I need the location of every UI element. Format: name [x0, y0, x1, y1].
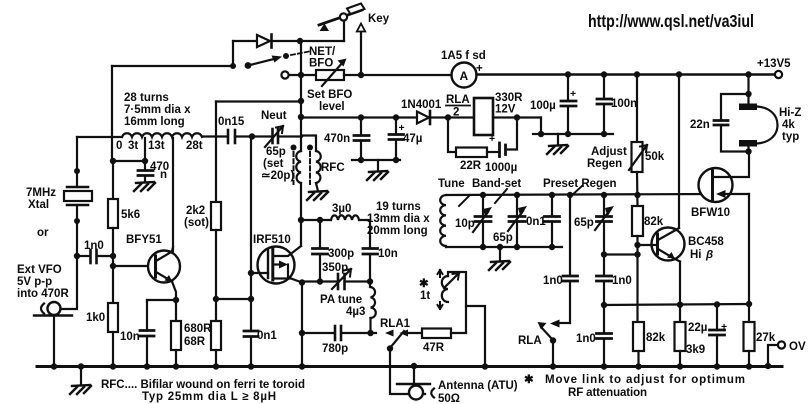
wire to RLA1 contact	[371, 332, 377, 334]
node 47u rail	[393, 114, 399, 120]
terminal 0V	[768, 341, 806, 366]
node supply rail tap	[298, 114, 304, 120]
svg-text:or: or	[37, 227, 49, 239]
ground filter bus	[557, 134, 559, 145]
wire key riser	[343, 21, 345, 41]
key J1	[319, 4, 365, 32]
svg-text:5V p-p: 5V p-p	[17, 276, 52, 288]
wire 13t tap collector	[172, 138, 174, 251]
svg-text:3t: 3t	[128, 140, 138, 152]
wire 28t to 0n15	[202, 135, 227, 137]
wire xtal bottom	[76, 205, 78, 256]
node 10p top	[480, 192, 486, 198]
capacitor 10n emitter	[120, 300, 154, 366]
inductor RFC winding inline	[296, 151, 301, 183]
svg-text:0n15: 0n15	[218, 116, 245, 128]
wire rfc to drain	[300, 183, 302, 246]
svg-text:330R: 330R	[495, 92, 523, 104]
node gate bias join	[248, 296, 254, 302]
terminal BFO input	[281, 71, 316, 78]
svg-text:+: +	[721, 321, 727, 333]
connector Antenna ATU 50ohm	[397, 366, 434, 400]
svg-text:22µ: 22µ	[688, 322, 707, 334]
node gate bias	[213, 296, 219, 302]
node rail 22u	[714, 363, 720, 369]
svg-text:Set BFO: Set BFO	[307, 89, 352, 101]
wire tank top right	[359, 220, 370, 248]
resistor 27k	[744, 304, 776, 366]
svg-text:Adjust: Adjust	[591, 146, 627, 158]
capacitor 22u	[688, 305, 727, 367]
tick preset regen	[570, 186, 582, 197]
label coil taps 0 3t 13t 28t	[116, 140, 203, 152]
svg-text:NET/: NET/	[309, 46, 336, 58]
node base top	[634, 242, 640, 248]
transistor Q4 BFW10	[699, 152, 750, 202]
label 19 turns 13mm dia x 20mm long	[367, 201, 430, 237]
svg-text:16mm long: 16mm long	[124, 116, 185, 128]
terminal +13V5	[757, 58, 791, 78]
capacitor 65p Band-set	[493, 195, 527, 247]
node 0n1 top	[549, 192, 555, 198]
svg-text:65p: 65p	[574, 217, 594, 229]
svg-text:(set: (set	[263, 158, 284, 170]
node 10p bottom	[480, 244, 486, 250]
inductor 3u0	[331, 203, 359, 220]
node rail 82k	[635, 363, 641, 369]
node 100u rail	[565, 71, 571, 77]
svg-text:(sot): (sot)	[184, 217, 209, 229]
node switch common	[230, 63, 236, 69]
node alt input	[74, 218, 80, 224]
label rfc note	[101, 379, 305, 403]
svg-text:1A5 f sd: 1A5 f sd	[441, 50, 486, 62]
wire diode riser	[232, 41, 234, 66]
svg-text:IRF510: IRF510	[253, 234, 291, 246]
label 7MHz Xtal	[26, 187, 56, 211]
node 65p top	[514, 192, 520, 198]
svg-text:3µ0: 3µ0	[332, 203, 351, 215]
wire +13V5 rail	[477, 73, 775, 76]
node emitter	[173, 297, 179, 303]
ground main rail	[80, 366, 82, 385]
svg-text:1000µ: 1000µ	[485, 162, 517, 174]
rfc phasing dot B	[307, 145, 313, 151]
wire 5k6 top	[112, 161, 114, 199]
node rail 3k9	[677, 363, 683, 369]
wire 5k6 bottom	[112, 228, 114, 303]
svg-text:0: 0	[116, 140, 122, 152]
wire 68R bottom	[215, 350, 217, 366]
wire 3t tap	[144, 138, 146, 170]
label 28 turns 7.5mm dia x 16mm long	[124, 92, 191, 128]
wire emitter riser	[679, 262, 681, 306]
capacitor Neut 65p (set ~20p)	[261, 110, 294, 182]
capacitor 470n osc	[138, 161, 169, 182]
link 1t coil	[438, 270, 460, 309]
svg-text:65p: 65p	[266, 146, 286, 158]
wire collector riser	[678, 75, 680, 229]
wire regen bus	[446, 194, 712, 195]
wire ground rail 0V	[37, 365, 782, 368]
svg-text:82k: 82k	[646, 332, 666, 344]
svg-text:13t: 13t	[148, 140, 165, 152]
svg-text:Hi-Z: Hi-Z	[779, 107, 801, 119]
capacitor 10p Tune	[455, 195, 492, 247]
svg-text:50Ω: 50Ω	[438, 393, 460, 404]
wire to neut cap	[252, 135, 271, 137]
node rail 27k	[746, 363, 752, 369]
contact arrow RLA1 right	[400, 330, 409, 337]
capacitor 1n0 base	[597, 255, 632, 306]
svg-text:≃20p): ≃20p)	[261, 170, 294, 182]
capacitor 1000u	[485, 118, 517, 175]
svg-text:http://www.qsl.net/va3iul: http://www.qsl.net/va3iul	[588, 11, 754, 31]
node rail 1n0	[601, 363, 607, 369]
wire tap to 470n	[113, 160, 145, 162]
wire diode cathode	[272, 40, 300, 42]
svg-text:+13V5: +13V5	[757, 58, 791, 70]
switch S1 NET/BFO arm	[245, 52, 309, 69]
wire gate column	[250, 137, 252, 331]
svg-text:68R: 68R	[184, 336, 206, 348]
label NET/BFO	[309, 46, 336, 70]
node emitter join	[677, 302, 683, 308]
capacitor 22n phones	[690, 94, 749, 152]
capacitor 1n0 mute	[543, 275, 578, 323]
svg-text:BFO: BFO	[309, 58, 333, 70]
svg-text:β: β	[705, 249, 713, 261]
svg-text:Key: Key	[368, 13, 390, 25]
svg-text:Tune: Tune	[438, 178, 465, 190]
svg-text:680R: 680R	[184, 323, 212, 335]
svg-text:22n: 22n	[690, 119, 710, 131]
svg-text:1n0: 1n0	[612, 275, 632, 287]
wire coil left	[77, 136, 122, 138]
headphones Hi-Z 4k	[739, 104, 778, 153]
node rail 680R	[173, 363, 179, 369]
node rail source	[299, 363, 305, 369]
capacitor 0n1 gate	[244, 330, 277, 366]
svg-text:47R: 47R	[423, 342, 445, 354]
node 3t tap	[142, 158, 148, 164]
wire to key	[300, 40, 344, 42]
potentiometer Set BFO level	[316, 59, 347, 87]
node preset top	[601, 192, 607, 198]
svg-text:OV: OV	[789, 341, 806, 353]
wire mute arrow	[550, 320, 570, 328]
svg-text:27k: 27k	[756, 332, 776, 344]
node BC458 collector rail	[676, 71, 682, 77]
capacitor 47u	[389, 118, 422, 161]
wire keyed 12V feed	[301, 116, 417, 118]
svg-text:Ext VFO: Ext VFO	[17, 264, 62, 276]
wire diode anode	[233, 40, 257, 42]
svg-text:780p: 780p	[322, 343, 348, 355]
svg-text:20mm long: 20mm long	[367, 225, 428, 237]
svg-text:✱: ✱	[524, 374, 534, 386]
transistor Q3 BC458	[638, 228, 685, 262]
node 780p junction	[367, 330, 373, 336]
key arrow contact	[357, 24, 365, 76]
svg-text:1n0: 1n0	[576, 333, 596, 345]
label BC458 Hi beta	[688, 236, 724, 261]
capacitor 0n15	[218, 116, 245, 143]
svg-text:65p: 65p	[493, 232, 513, 244]
capacitor 10n coupling	[363, 248, 398, 282]
wire 2k2 column	[215, 102, 217, 203]
transistor Q2 IRF510	[251, 246, 302, 284]
inductor 4u3	[370, 282, 376, 334]
diode D2 1N4001	[401, 99, 448, 124]
svg-text:+: +	[570, 88, 576, 100]
capacitor 100u	[530, 75, 576, 135]
svg-text:10n: 10n	[378, 248, 398, 260]
resistor 47R	[408, 329, 466, 355]
svg-text:28t: 28t	[186, 140, 203, 152]
svg-text:50k: 50k	[645, 151, 665, 163]
svg-text:into 470R: into 470R	[17, 288, 69, 300]
node 82k rail	[634, 192, 640, 198]
node 100u gnd	[565, 131, 571, 137]
node phones rail	[745, 71, 751, 77]
capacitor 300p	[313, 220, 355, 282]
svg-text:Neut: Neut	[261, 110, 287, 122]
node 470n rail	[358, 114, 364, 120]
svg-text:1t: 1t	[420, 290, 430, 302]
node osc tap	[110, 158, 116, 164]
svg-text:12V: 12V	[495, 104, 516, 116]
label link note	[419, 278, 430, 302]
svg-text:1k0: 1k0	[86, 312, 105, 324]
node phones bottom	[745, 148, 751, 154]
node regen mute	[567, 192, 573, 198]
node 1n0 left	[74, 253, 80, 259]
transistor Q1 BFY51	[148, 247, 180, 300]
node relay feed	[445, 114, 451, 120]
capacitor 0n1 Band-set	[526, 195, 560, 247]
svg-text:BFY51: BFY51	[126, 234, 162, 246]
wire source ground column	[301, 283, 303, 367]
ground decoupling	[377, 160, 379, 171]
wire pot to key node	[344, 74, 361, 76]
wire xtal column	[76, 137, 78, 187]
capacitor 470n decoupling	[324, 118, 369, 161]
node 65p bottom	[514, 244, 520, 250]
resistor 1k0	[86, 303, 118, 332]
svg-text:22R: 22R	[460, 160, 482, 172]
node 0n1 bottom	[549, 244, 555, 250]
resistor 68R	[211, 321, 221, 350]
node tank gnd	[497, 244, 503, 250]
svg-text:RLA1: RLA1	[380, 318, 411, 330]
node 100n rail	[601, 71, 607, 77]
wire neut to rfc node	[278, 135, 302, 137]
label PA tune 4u3	[320, 294, 365, 318]
svg-text:10p: 10p	[455, 218, 475, 230]
node 0V rail	[765, 363, 771, 369]
svg-text:Move link to adjust for optimu: Move link to adjust for optimum	[545, 374, 745, 386]
capacitor 1n0 input	[77, 240, 113, 263]
svg-text:level: level	[319, 101, 345, 113]
wire base	[113, 265, 155, 267]
relay coil RLA	[448, 98, 541, 135]
svg-text:10n: 10n	[120, 331, 140, 343]
node drain tank	[298, 217, 304, 223]
svg-text:+: +	[489, 133, 495, 145]
svg-text:+: +	[476, 63, 483, 75]
capacitor 1n0 emitter	[576, 305, 612, 366]
node 300p bottom	[317, 278, 323, 284]
wire decoupling ground bus	[352, 159, 400, 161]
node 300p top	[317, 217, 323, 223]
label Antenna (ATU) 50ohm	[438, 380, 518, 404]
node source	[299, 279, 305, 285]
node keyed supply	[358, 72, 364, 78]
wire 1k0 bottom	[112, 332, 114, 366]
svg-text:✱: ✱	[419, 278, 429, 290]
rfc phasing dot A	[291, 145, 297, 151]
node 50k rail	[634, 71, 640, 77]
svg-text:100µ: 100µ	[530, 100, 556, 112]
resistor 82k upper	[632, 206, 664, 322]
wire to ammeter	[361, 74, 452, 76]
svg-text:7MHz: 7MHz	[26, 187, 56, 199]
ground RFC	[307, 191, 328, 200]
svg-text:1n0: 1n0	[543, 275, 563, 287]
node gate drop	[249, 133, 255, 139]
svg-text:Regen: Regen	[587, 158, 622, 170]
potentiometer 50k Adjust Regen	[629, 75, 665, 207]
svg-text:Xtal: Xtal	[28, 199, 49, 211]
diode D1	[257, 35, 272, 48]
label Hi-Z 4k typ	[779, 107, 801, 143]
node source join	[746, 301, 752, 307]
svg-text:3k9: 3k9	[686, 344, 705, 356]
node phones top	[745, 91, 751, 97]
node 1n0b top	[601, 251, 607, 257]
svg-text:19 turns: 19 turns	[376, 201, 421, 213]
node pot tap	[298, 72, 304, 78]
svg-text:RF attenuation: RF attenuation	[568, 387, 647, 399]
svg-text:300p: 300p	[328, 248, 354, 260]
label RLA/2	[446, 94, 470, 119]
node 47u gnd	[393, 157, 399, 163]
label Adjust Regen	[587, 146, 627, 170]
node antenna rail	[411, 363, 417, 369]
wire top-left vertical	[111, 66, 113, 161]
node 100n gnd	[601, 131, 607, 137]
svg-text:470n: 470n	[324, 133, 350, 145]
node xtal top	[74, 168, 80, 174]
node rail gnd stem	[78, 363, 84, 369]
tick tune	[459, 195, 470, 206]
node rail link	[482, 363, 488, 369]
node rail 10n	[144, 363, 150, 369]
node 2k2 feed	[298, 98, 304, 104]
resistor 680R	[171, 300, 181, 366]
wire source riser	[748, 194, 750, 304]
inductor RFC winding B	[302, 136, 321, 192]
label link move note	[524, 374, 745, 399]
switch RLA1 arm	[387, 331, 425, 394]
svg-text:Typ 25mm dia L ≥ 8µH: Typ 25mm dia L ≥ 8µH	[142, 391, 276, 403]
rfc dashed winding B	[309, 152, 311, 184]
wire relay to filter bus	[541, 118, 613, 135]
node 22u top	[714, 301, 720, 307]
wire main vertical node column	[300, 41, 302, 151]
resistor 2k2 (sot)	[184, 202, 221, 230]
wire 0n15 to neut	[235, 135, 252, 137]
wire emitter bus	[604, 304, 749, 305]
wire mute column	[569, 195, 571, 276]
wire link to ground drop	[448, 272, 485, 366]
svg-text:Hi: Hi	[690, 249, 702, 261]
svg-text:7·5mm dia x: 7·5mm dia x	[124, 104, 191, 116]
wire ext vfo riser	[61, 256, 77, 309]
wire preset to divider	[604, 253, 638, 255]
node 1000u return	[514, 114, 520, 120]
node key/diode junction	[297, 38, 303, 44]
node emitter bus	[601, 302, 607, 308]
node rail RLA	[550, 363, 556, 369]
node 470n gnd	[358, 157, 364, 163]
svg-text:100n: 100n	[611, 98, 637, 110]
svg-text:RFC.... Bifilar wound on ferri: RFC.... Bifilar wound on ferri te toroid	[101, 379, 305, 391]
capacitor 65p Preset Regen	[574, 195, 614, 255]
node preset join	[634, 251, 640, 257]
wire phones riser	[747, 75, 749, 105]
svg-text:5k6: 5k6	[121, 209, 140, 221]
svg-text:RLA: RLA	[446, 94, 470, 106]
wire emitter row	[147, 299, 176, 301]
tick bandset	[495, 189, 507, 203]
wire tank bottom right	[345, 280, 370, 282]
resistor 5k6	[108, 199, 140, 228]
resistor 22R	[448, 118, 498, 173]
wire bias to gate	[216, 298, 251, 300]
svg-text:4k: 4k	[782, 119, 795, 131]
resistor 3k9	[675, 305, 706, 366]
svg-text:82k: 82k	[644, 216, 664, 228]
svg-text:0n1: 0n1	[526, 216, 546, 228]
ammeter M1 1A5 fsd	[441, 50, 486, 88]
inductor L1 28 turns	[122, 133, 202, 137]
wire tank bottom left	[302, 280, 336, 282]
svg-text:n: n	[160, 169, 167, 181]
node bus corner	[538, 131, 544, 137]
node rail 1k0	[110, 363, 116, 369]
rfc dashed winding A	[293, 152, 295, 184]
svg-text:BC458: BC458	[688, 236, 724, 248]
svg-text:13mm dia x: 13mm dia x	[367, 213, 430, 225]
node rail ext vfo gnd	[51, 363, 57, 369]
svg-text:350p: 350p	[322, 262, 348, 274]
svg-text:1n0: 1n0	[84, 240, 104, 252]
node 780p ground side	[299, 330, 305, 336]
svg-text:1N4001: 1N4001	[401, 99, 442, 111]
svg-text:RLA: RLA	[518, 335, 542, 347]
switch RLA mute	[538, 322, 557, 366]
capacitor 780p	[302, 326, 371, 355]
svg-text:0n1: 0n1	[257, 330, 277, 342]
capacitor 100n	[597, 75, 637, 135]
wire top-left horizontal	[112, 65, 234, 67]
wire tank top left	[301, 219, 331, 221]
capacitor PA tune 350p	[322, 262, 351, 289]
svg-text:4µ3: 4µ3	[346, 306, 365, 318]
node 10n bottom	[367, 278, 373, 284]
